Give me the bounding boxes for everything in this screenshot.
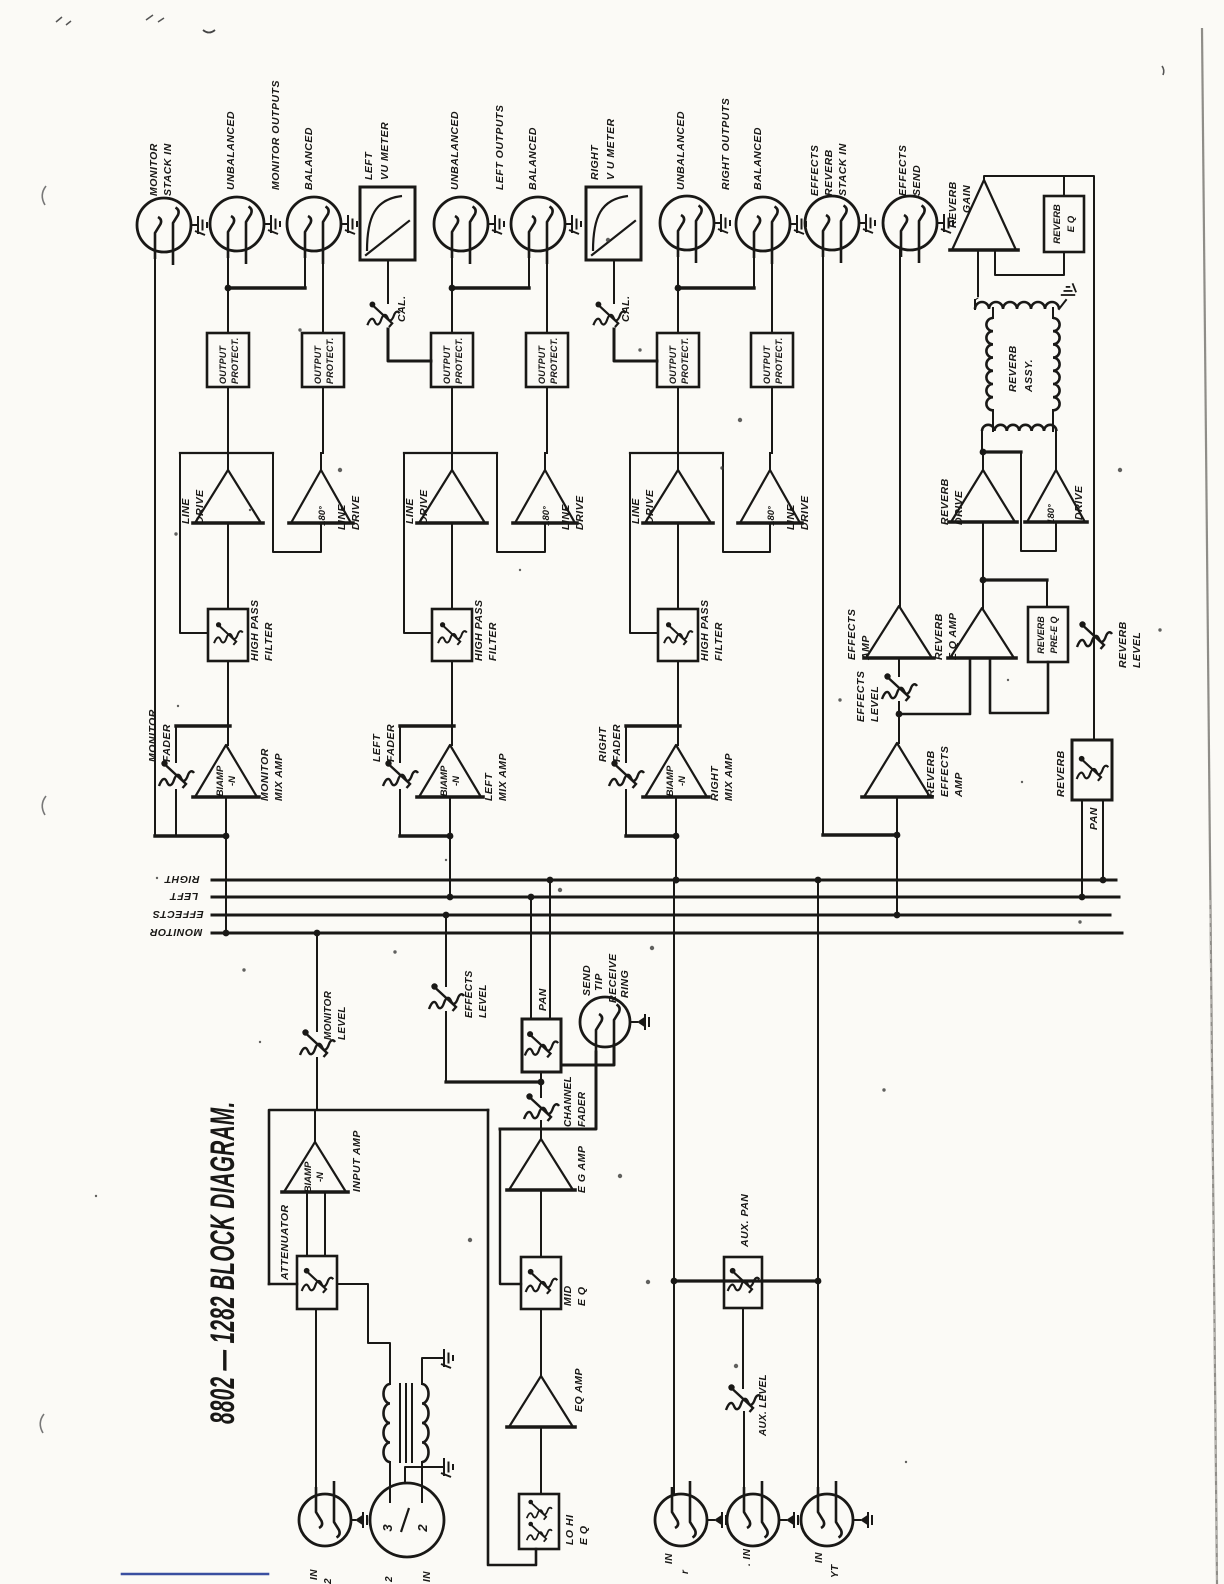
svg-text:2: 2: [384, 1576, 395, 1583]
svg-text:BIAMP: BIAMP: [665, 765, 676, 796]
svg-text:LEFT OUTPUTS: LEFT OUTPUTS: [494, 105, 506, 190]
svg-text:SEND: SEND: [911, 165, 923, 196]
op-amp BIAMP-N LEFT MIX AMP: [419, 745, 481, 797]
wire LEFT mix amp to LEFT bus: [449, 797, 451, 897]
op-amp LINE DRIVE (LEFT): [419, 470, 485, 523]
scan speckles: [519, 569, 521, 571]
potentiometer CAL (LEFT VU): [387, 260, 389, 303]
jack EFFECTS REVERB STACK IN: [805, 196, 859, 263]
svg-text:IN: IN: [664, 1553, 675, 1564]
blue pen mark bottom left: [122, 1573, 268, 1576]
svg-text:STACK IN: STACK IN: [837, 143, 849, 196]
svg-text:CHANNEL: CHANNEL: [563, 1076, 574, 1127]
wire RIGHT mix amp to RIGHT bus: [675, 797, 677, 880]
wires reverb pan to left/right buses: [1081, 800, 1083, 897]
svg-text:PAN: PAN: [537, 988, 549, 1011]
svg-text:LINE: LINE: [630, 498, 642, 524]
output protect box U1 (MONITOR unbalanced): [207, 333, 249, 387]
svg-text:FADER: FADER: [611, 724, 623, 762]
scan margin marks: [42, 186, 46, 205]
svg-text:LINE: LINE: [560, 504, 572, 530]
ground at MONITOR unbalanced jack: [264, 223, 271, 225]
svg-text:BALANCED: BALANCED: [303, 127, 315, 190]
svg-text:EFFECTS: EFFECTS: [855, 671, 867, 722]
feedback tap line (MONITOR): [180, 452, 273, 454]
svg-text:UNBALANCED: UNBALANCED: [449, 111, 461, 190]
aux pan tie line: [674, 1279, 818, 1282]
svg-text:FADER: FADER: [161, 724, 173, 762]
wire MONITOR unbalanced jack down to output protect: [227, 256, 229, 333]
wire 180 line drive to balanced output protect (RIGHT): [769, 453, 771, 470]
wire 180 line drive to balanced output protect (LEFT): [544, 453, 546, 470]
wire IN 2 jack to attenuator: [315, 1309, 317, 1493]
svg-text:LO HI: LO HI: [564, 1514, 576, 1545]
svg-text:E Q: E Q: [576, 1286, 588, 1306]
svg-text:BIAMP: BIAMP: [303, 1161, 314, 1192]
transformer T1: [384, 1384, 390, 1462]
feedback tap line (RIGHT): [630, 452, 723, 454]
jack EFFECTS SEND: [883, 196, 937, 263]
svg-text:180°: 180°: [541, 506, 552, 526]
high pass filter box (MONITOR): [208, 609, 248, 661]
svg-text:OUTPUT: OUTPUT: [762, 345, 772, 385]
ground at RIGHT unbalanced jack: [714, 222, 721, 224]
svg-text:3: 3: [380, 1524, 395, 1532]
MONITOR fader loop: [176, 724, 230, 727]
ground at LEFT unbalanced jack: [488, 223, 495, 225]
svg-text:RECEIVE: RECEIVE: [607, 953, 619, 1003]
svg-text:FILTER: FILTER: [263, 622, 275, 661]
svg-text:OUTPUT: OUTPUT: [313, 345, 323, 385]
junction node RIGHT unbalanced/balanced tie: [675, 285, 682, 292]
svg-text:MONITOR: MONITOR: [150, 926, 203, 938]
wire reverb eq amp input: [899, 658, 970, 714]
output protect box U3 (LEFT unbalanced): [431, 333, 473, 387]
wire transformer to XLR pin 2: [421, 1462, 423, 1502]
svg-text:RING: RING: [619, 970, 631, 998]
svg-text:ATTENUATOR: ATTENUATOR: [279, 1204, 291, 1281]
svg-text:BALANCED: BALANCED: [752, 127, 764, 190]
svg-text:MIX AMP: MIX AMP: [497, 752, 509, 801]
reverb spring right: [1053, 318, 1060, 410]
svg-text:EFFECTS: EFFECTS: [939, 746, 951, 797]
svg-text:PROTECT.: PROTECT.: [325, 338, 335, 384]
op-amp 180 deg DRIVE (reverb): [1027, 470, 1085, 522]
svg-text:PAN: PAN: [1088, 807, 1100, 830]
junction node LEFT unbalanced/balanced tie: [449, 285, 456, 292]
jack MONITOR STACK IN: [137, 198, 191, 265]
jack IN RIGHT: [801, 1481, 853, 1546]
wire high pass filter to mix amp (RIGHT): [677, 661, 679, 745]
svg-text:MIX AMP: MIX AMP: [723, 752, 735, 801]
svg-text:MONITOR: MONITOR: [148, 143, 160, 196]
svg-text:E Q AMP: E Q AMP: [947, 612, 959, 660]
svg-text:IN: IN: [309, 1569, 320, 1580]
output protect box U2 (MONITOR balanced): [302, 333, 344, 387]
ground at reverb pickup coil: [1059, 300, 1066, 309]
svg-text:RIGHT: RIGHT: [589, 144, 601, 180]
svg-text:FADER: FADER: [577, 1091, 588, 1127]
svg-text:DRIVE: DRIVE: [1073, 485, 1085, 520]
svg-text:LINE: LINE: [336, 504, 348, 530]
svg-text:-N: -N: [315, 1171, 326, 1182]
svg-text:CAL.: CAL.: [396, 296, 408, 323]
op-amp EFFECTS AMP: [866, 606, 932, 658]
reverb pan box: [1072, 740, 1112, 800]
svg-text:EQ AMP: EQ AMP: [573, 1367, 585, 1412]
op-amp LINE DRIVE (RIGHT): [645, 470, 711, 523]
op-amp BIAMP-N INPUT AMP: [314, 1110, 316, 1142]
potentiometer CAL (RIGHT VU): [613, 260, 615, 303]
op-amp REVERB GAIN: [952, 180, 1016, 250]
svg-text:LEFT: LEFT: [371, 733, 383, 762]
jack IN AUX: [727, 1481, 779, 1546]
svg-text:INPUT AMP: INPUT AMP: [351, 1130, 363, 1192]
potentiometer MONITOR LEVEL: [314, 930, 321, 937]
junction stack in to reverb effects amp: [823, 833, 897, 836]
jack IN 2 (channel input): [299, 1481, 351, 1546]
svg-text:EFFECTS: EFFECTS: [464, 970, 475, 1018]
output protect box U4 (LEFT balanced): [526, 333, 568, 387]
wire high pass filter to mix amp (LEFT): [451, 661, 453, 745]
svg-text:YT: YT: [830, 1564, 841, 1578]
potentiometer CHANNEL FADER: [524, 1093, 559, 1121]
svg-text:DRIVE: DRIVE: [953, 490, 965, 525]
svg-text:CAL.: CAL.: [620, 296, 632, 323]
svg-text:REVERB: REVERB: [1117, 621, 1129, 668]
svg-text:BIAMP: BIAMP: [215, 765, 226, 796]
potentiometer EFFECTS LEVEL (channel): [443, 912, 450, 919]
op-amp REVERB EQ AMP: [950, 608, 1014, 658]
wire effects reverb stack in down: [822, 250, 824, 835]
potentiometer EFFECTS LEVEL (mix): [898, 658, 900, 676]
wire 180 line drive to balanced output protect (MONITOR): [320, 453, 322, 470]
svg-text:180°: 180°: [317, 506, 328, 526]
wire reverb gain output line: [984, 176, 1094, 740]
svg-text:DRIVE: DRIVE: [194, 489, 206, 524]
wire effects send down to effects amp: [899, 250, 901, 606]
output protect box U6 (RIGHT balanced): [751, 333, 793, 387]
reverb drive coil: [982, 425, 1056, 431]
svg-text:OUTPUT: OUTPUT: [668, 345, 678, 385]
wire output protect to line drive (RIGHT): [677, 387, 679, 470]
op-amp 180 deg LINE DRIVE (LEFT): [515, 470, 575, 523]
reverb EQ box: [1044, 196, 1084, 252]
reverb pre-eq box: [1028, 607, 1068, 662]
svg-text:PROTECT.: PROTECT.: [230, 338, 240, 384]
wire CAL to output protect (RIGHT): [614, 329, 657, 361]
potentiometer REVERB LEVEL: [1077, 621, 1112, 649]
wire reverb drive coil right to 180 drive: [1055, 431, 1057, 470]
svg-text:EFFECTS: EFFECTS: [152, 908, 203, 920]
wire RIGHT unbalanced jack down to output protect: [677, 255, 679, 333]
svg-text:LINE: LINE: [180, 498, 192, 524]
svg-text:VU METER: VU METER: [379, 122, 391, 180]
svg-text:FADER: FADER: [385, 724, 397, 762]
svg-text:180°: 180°: [1046, 504, 1057, 524]
op-amp 180 deg LINE DRIVE (RIGHT): [740, 470, 800, 523]
svg-text:REVERB: REVERB: [933, 613, 945, 660]
wire eq amp to mid eq: [540, 1190, 542, 1257]
svg-text:EFFECTS: EFFECTS: [809, 145, 821, 196]
svg-text:AMP: AMP: [860, 635, 872, 661]
svg-text:LINE: LINE: [785, 504, 797, 530]
wire line drive base to high pass filter (LEFT): [451, 523, 453, 609]
svg-text:REVERB: REVERB: [1036, 616, 1046, 654]
page border scan edge: [1202, 28, 1217, 1584]
svg-text:MIX AMP: MIX AMP: [273, 752, 285, 801]
jack RIGHT unbalanced output: [660, 196, 714, 263]
svg-text:LEVEL: LEVEL: [869, 686, 881, 722]
svg-text:180°: 180°: [766, 506, 777, 526]
svg-text:LEVEL: LEVEL: [1131, 632, 1143, 668]
svg-text:STACK IN: STACK IN: [162, 143, 174, 196]
svg-text:RIGHT: RIGHT: [163, 873, 199, 885]
wire CAL to output protect (LEFT): [388, 329, 431, 361]
svg-text:HIGH PASS: HIGH PASS: [249, 600, 261, 661]
svg-text:OUTPUT: OUTPUT: [537, 345, 547, 385]
svg-text:REVERB: REVERB: [1007, 345, 1019, 392]
svg-text:TIP: TIP: [593, 973, 605, 991]
wire input amp frame: [269, 1110, 488, 1284]
jack RIGHT balanced output: [736, 197, 790, 264]
aux pan box: [724, 1257, 762, 1308]
wire reverb EQ feedback to reverb gain input: [995, 252, 1064, 275]
svg-text:MONITOR: MONITOR: [259, 748, 271, 801]
svg-text:OUTPUT: OUTPUT: [442, 345, 452, 385]
svg-text:SEND: SEND: [581, 965, 593, 996]
svg-text:UNBALANCED: UNBALANCED: [675, 111, 687, 190]
svg-text:E Q: E Q: [1066, 215, 1077, 232]
svg-text:PROTECT.: PROTECT.: [454, 338, 464, 384]
wire send tip to channel fader node: [500, 1052, 596, 1129]
wire high pass filter to mix amp (MONITOR): [227, 661, 229, 745]
LEFT VU METER box: [360, 187, 415, 260]
op-amp BIAMP-N MONITOR MIX AMP: [195, 745, 257, 797]
ground at MONITOR balanced jack: [341, 223, 348, 225]
svg-text:-N: -N: [227, 775, 238, 786]
svg-text:DRIVE: DRIVE: [644, 489, 656, 524]
svg-text:LEFT: LEFT: [169, 890, 198, 902]
wire RIGHT balanced jack down to output protect: [771, 254, 773, 333]
wire reverb drive base down: [982, 522, 984, 580]
svg-text:PRE-E Q: PRE-E Q: [1049, 616, 1059, 653]
svg-text:REVERB: REVERB: [939, 478, 951, 525]
svg-text:V U METER: V U METER: [605, 118, 617, 180]
op-amp 180 deg LINE DRIVE (MONITOR): [291, 470, 351, 523]
svg-text:RIGHT OUTPUTS: RIGHT OUTPUTS: [720, 98, 732, 190]
svg-text:. IN: . IN: [742, 1548, 753, 1566]
svg-text:PROTECT.: PROTECT.: [774, 338, 784, 384]
svg-text:PROTECT.: PROTECT.: [680, 338, 690, 384]
jack LEFT unbalanced output: [434, 197, 488, 264]
wire left input riser: [673, 877, 680, 884]
svg-text:FILTER: FILTER: [487, 622, 499, 661]
svg-text:REVERB: REVERB: [1055, 750, 1067, 797]
wire effects level to channel fader node: [446, 1080, 541, 1083]
junction node MONITOR unbalanced/balanced tie: [225, 285, 232, 292]
svg-text:LEFT: LEFT: [483, 772, 495, 801]
svg-text:LEFT: LEFT: [363, 151, 375, 180]
svg-text:OUTPUT: OUTPUT: [218, 345, 228, 385]
wire output protect to line drive (LEFT): [451, 387, 453, 470]
RIGHT VU METER box: [586, 187, 641, 260]
wire to reverb eq amp: [982, 580, 984, 608]
wire LEFT balanced jack down to output protect: [546, 254, 548, 333]
wire line drive base to high pass filter (MONITOR): [227, 523, 229, 609]
svg-text:EFFECTS: EFFECTS: [846, 609, 858, 660]
op-amp BIAMP-N RIGHT MIX AMP: [645, 745, 707, 797]
svg-text:MONITOR: MONITOR: [147, 709, 159, 762]
feedback tap line (LEFT): [404, 452, 497, 454]
svg-text:UNBALANCED: UNBALANCED: [225, 111, 237, 190]
XLR input connector: [370, 1483, 444, 1557]
svg-text:HIGH PASS: HIGH PASS: [699, 600, 711, 661]
wire transformer to XLR pin 3: [389, 1462, 391, 1502]
svg-text:LEVEL: LEVEL: [478, 984, 489, 1018]
wire mid eq to eq amp (pre): [540, 1309, 542, 1376]
wires channel pan to left/right buses: [530, 897, 532, 1019]
svg-text:GAIN: GAIN: [961, 185, 973, 213]
svg-text:-N: -N: [677, 775, 688, 786]
op-amp REVERB EFFECTS AMP: [898, 714, 900, 743]
svg-text:RIGHT: RIGHT: [597, 726, 609, 762]
svg-text:DRIVE: DRIVE: [574, 495, 586, 530]
wire XLR pin 1 to ground: [405, 1467, 444, 1483]
RIGHT fader loop: [626, 724, 680, 727]
svg-text:HIGH PASS: HIGH PASS: [473, 600, 485, 661]
svg-text:DRIVE: DRIVE: [350, 495, 362, 530]
svg-text:2: 2: [415, 1524, 430, 1533]
wire channel pan to channel fader: [540, 1072, 542, 1097]
jack LEFT balanced output: [511, 197, 565, 264]
wire reverb gain input from pickup coil: [977, 250, 979, 296]
svg-text:BIAMP: BIAMP: [439, 765, 450, 796]
output protect box U5 (RIGHT unbalanced): [657, 333, 699, 387]
op-amp LINE DRIVE (MONITOR): [195, 470, 261, 523]
svg-text:r: r: [680, 1569, 691, 1574]
wire line drive base to high pass filter (RIGHT): [677, 523, 679, 609]
op-amp EQ AMP (post): [509, 1139, 573, 1190]
ground at RIGHT balanced jack: [790, 223, 797, 225]
svg-text:BALANCED: BALANCED: [527, 127, 539, 190]
svg-text:IN: IN: [814, 1552, 825, 1563]
attenuator box: [297, 1256, 337, 1309]
svg-text:-N: -N: [451, 775, 462, 786]
wire receive ring to pan box: [561, 1045, 614, 1065]
svg-text:EFFECTS: EFFECTS: [897, 145, 909, 196]
svg-text:REVERB: REVERB: [1052, 204, 1063, 244]
svg-text:LINE: LINE: [404, 498, 416, 524]
high pass filter box (LEFT): [432, 609, 472, 661]
svg-text:REVERB: REVERB: [925, 750, 937, 797]
reverb spring left: [986, 318, 993, 410]
svg-text:LEVEL: LEVEL: [337, 1006, 348, 1040]
svg-text:AUX. LEVEL: AUX. LEVEL: [758, 1374, 769, 1437]
jack IN LEFT: [655, 1481, 707, 1546]
high pass filter box (RIGHT): [658, 609, 698, 661]
lo hi EQ box: [519, 1494, 559, 1549]
op-amp REVERB DRIVE: [982, 452, 984, 470]
svg-text:E G AMP: E G AMP: [576, 1145, 588, 1193]
wire LEFT unbalanced jack down to output protect: [451, 256, 453, 333]
wire reverb drive coil left to reverb drive amp: [981, 431, 983, 452]
jack MONITOR unbalanced output: [210, 197, 264, 264]
wire eq amp to lo hi eq: [540, 1427, 542, 1494]
wire reverb effects amp to effects bus: [896, 797, 898, 915]
svg-text:E Q: E Q: [578, 1525, 590, 1545]
svg-text:2: 2: [323, 1578, 334, 1584]
wires input amp to attenuator: [306, 1192, 308, 1256]
ground at monitor stack in jack: [191, 224, 198, 226]
svg-text:REVERB: REVERB: [947, 181, 959, 228]
svg-text:AMP: AMP: [953, 772, 965, 798]
wire output protect to line drive (MONITOR): [227, 387, 229, 470]
svg-text:FILTER: FILTER: [713, 622, 725, 661]
potentiometer AUX LEVEL: [742, 1308, 744, 1388]
ground at LEFT balanced jack: [565, 223, 572, 225]
svg-text:8802 — 1282 BLOCK DIAGRAM.: 8802 — 1282 BLOCK DIAGRAM.: [204, 1101, 241, 1424]
svg-text:IN: IN: [422, 1571, 433, 1582]
reverb pickup coil: [975, 302, 1059, 309]
op-amp EQ AMP (pre): [509, 1376, 573, 1427]
svg-text:MID: MID: [562, 1285, 574, 1306]
svg-text:DRIVE: DRIVE: [799, 495, 811, 530]
svg-text:DRIVE: DRIVE: [418, 489, 430, 524]
channel pan box: [522, 1019, 561, 1072]
jack MONITOR balanced output: [287, 197, 341, 264]
wire MONITOR balanced jack down to output protect: [322, 254, 324, 333]
svg-text:MONITOR: MONITOR: [323, 990, 334, 1040]
wire pre-eq feedback loop: [990, 658, 1048, 713]
jack SEND TIP / RECEIVE RING: [580, 997, 630, 1054]
svg-text:MONITOR OUTPUTS: MONITOR OUTPUTS: [270, 80, 282, 190]
svg-text:ASSY.: ASSY.: [1023, 359, 1035, 393]
svg-text:AUX. PAN: AUX. PAN: [739, 1194, 751, 1248]
wire attenuator to transformer: [337, 1284, 390, 1384]
mid EQ box: [521, 1257, 561, 1309]
wire transformer to ground (top): [422, 1358, 444, 1384]
svg-text:REVERB: REVERB: [823, 149, 835, 196]
LEFT fader loop: [400, 724, 454, 727]
svg-text:RIGHT: RIGHT: [709, 765, 721, 801]
wire MONITOR mix amp to MONITOR bus: [225, 797, 227, 933]
svg-text:PROTECT.: PROTECT.: [549, 338, 559, 384]
wire monitor stack in down to monitor mix amp input: [154, 259, 156, 836]
wire right input riser: [815, 877, 822, 884]
